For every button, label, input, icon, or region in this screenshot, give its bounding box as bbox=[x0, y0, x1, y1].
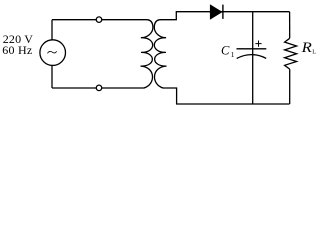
diode D1: triangle bbox=[210, 5, 222, 19]
wire: secondary bottom lead to rail bbox=[163, 88, 290, 104]
resistor RL: top lead bbox=[289, 12, 291, 39]
AC source V1: sine symbol bbox=[47, 51, 56, 53]
wire: source top vertical bbox=[51, 20, 53, 40]
capacitor C1: curved bottom plate bbox=[237, 55, 267, 59]
AC source V1: circle bbox=[40, 40, 66, 66]
wire: primary bottom horizontal bbox=[52, 87, 145, 89]
resistor RL: bottom lead bbox=[289, 69, 291, 104]
capacitor C1: plus sign bbox=[255, 41, 261, 47]
terminal: top input terminal circle bbox=[96, 17, 102, 23]
svg-text:R: R bbox=[300, 40, 311, 56]
resistor RL: zigzag bbox=[285, 38, 297, 69]
wire: primary top horizontal bbox=[52, 19, 147, 21]
transformer T1: primary coil (4 loops, bulge right) bbox=[141, 20, 153, 88]
svg-text:L: L bbox=[312, 50, 316, 56]
capacitor C1: top plate bbox=[237, 48, 267, 50]
wire: secondary top lead to rail bbox=[161, 12, 290, 20]
svg-text:1: 1 bbox=[231, 50, 235, 59]
capacitor C1: branch wire bbox=[252, 12, 254, 104]
wire: source bottom vertical bbox=[51, 65, 53, 88]
svg-text:C: C bbox=[221, 44, 230, 58]
diode D1: cathode bar bbox=[222, 5, 224, 19]
svg-text:60 Hz: 60 Hz bbox=[2, 43, 32, 57]
terminal: bottom input terminal circle bbox=[96, 85, 102, 91]
transformer T1: secondary coil (4 loops, bulge left) bbox=[154, 20, 166, 88]
